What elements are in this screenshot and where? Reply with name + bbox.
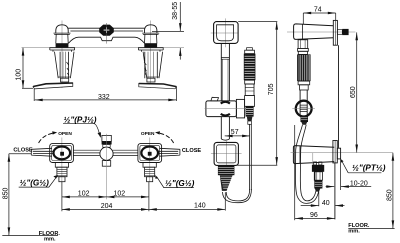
right escutcheon	[138, 48, 163, 52]
OPEN right arc arrow	[160, 133, 174, 143]
FRONT VIEW	[22, 21, 185, 89]
left collar	[61, 78, 69, 82]
tube bands in ring	[300, 105, 307, 111]
handshower holder section	[245, 96, 255, 107]
clamp grip top	[221, 102, 230, 104]
svg-text:½"(PJ½): ½"(PJ½)	[64, 115, 97, 124]
handshower grip ribs	[245, 56, 255, 78]
left legs hatch	[67, 62, 69, 75]
left nut line	[58, 76, 71, 78]
lower flange	[333, 141, 337, 163]
ring centerline	[292, 107, 315, 109]
left shank thread	[57, 167, 67, 177]
right handle hub	[141, 147, 158, 160]
shank tabs	[314, 162, 317, 165]
shank nut dark	[312, 165, 324, 172]
knurl cone ribs	[220, 177, 232, 188]
shank centerline	[312, 153, 314, 172]
svg-text:mm.: mm.	[44, 237, 56, 243]
svg-text:96: 96	[310, 212, 318, 219]
dim 96 left ext	[294, 125, 296, 220]
dim 705 line	[276, 22, 278, 165]
union ext line	[340, 159, 342, 190]
svg-text:850: 850	[386, 189, 393, 201]
dim 74 right ext	[335, 13, 337, 20]
hose vertical (middle)	[250, 124, 252, 190]
dark bands below ring	[301, 116, 309, 122]
upper body	[294, 24, 334, 40]
upper body cap line	[302, 24, 304, 39]
handshower body lines	[245, 88, 253, 91]
dim 74 left ext	[302, 13, 304, 24]
supply nipple stub	[337, 30, 342, 35]
svg-text:332: 332	[98, 94, 110, 101]
hose loop (side)	[295, 150, 318, 203]
left valve ring	[54, 33, 71, 34]
thread labels	[19, 124, 194, 188]
dim 100 bottom ext	[22, 87, 33, 89]
svg-text:½"(G½): ½"(G½)	[165, 179, 195, 188]
right legs hatch	[144, 62, 146, 75]
svg-text:57: 57	[231, 129, 239, 136]
bridge bar bottom edge with centre notch	[68, 37, 144, 43]
dim 57 line	[225, 135, 250, 137]
left valve square	[50, 144, 74, 163]
elbow nut dark	[218, 165, 235, 175]
right shank collar	[143, 163, 156, 168]
right valve ring	[142, 33, 159, 34]
right mounting legs	[143, 52, 163, 78]
rail joint	[221, 57, 229, 59]
wall bracket inner	[217, 25, 234, 41]
upper flange	[333, 20, 337, 45]
right valve square	[138, 144, 162, 163]
left valve base dark band	[56, 43, 69, 47]
elbow centerline v	[225, 139, 227, 168]
neck under body	[298, 40, 308, 49]
bracket centerline v	[224, 18, 226, 47]
svg-text:½"(PT½): ½"(PT½)	[352, 164, 386, 173]
slider clamp body	[206, 101, 237, 117]
wall elbow inner	[217, 145, 236, 163]
handshower cap	[245, 50, 255, 53]
rail upper	[221, 43, 229, 100]
left deck plate	[33, 83, 73, 89]
dim 10-20 right arrow	[341, 186, 349, 188]
left mounting legs	[55, 52, 75, 78]
lower body	[293, 146, 334, 164]
handshower band	[245, 80, 255, 84]
svg-text:204: 204	[101, 203, 113, 210]
dim 40 left segment	[301, 205, 319, 207]
right deck plate	[139, 83, 177, 88]
shower grip dark (side)	[297, 54, 311, 81]
svg-text:CLOSE: CLOSE	[182, 148, 202, 154]
dim 102 102 line	[62, 196, 107, 198]
left escutcheon	[50, 48, 75, 52]
holder ring	[296, 101, 312, 117]
joint lower	[300, 85, 309, 90]
label PT1/2 leader	[342, 161, 382, 173]
diverter centerline	[106, 134, 108, 200]
right valve base dark band	[144, 43, 157, 47]
svg-text:650: 650	[350, 86, 357, 98]
dim 10-20 left arrow	[326, 186, 335, 188]
shank ribs dark	[314, 180, 322, 188]
dim 850 left line	[8, 154, 10, 236]
dim 40 right segment	[335, 205, 344, 207]
diverter bottom	[102, 161, 110, 167]
dim 100 line	[22, 48, 24, 88]
left deck plate top edge	[33, 83, 73, 87]
svg-text:OPEN: OPEN	[141, 131, 155, 137]
dim 705 top ext	[238, 21, 277, 23]
shower grip vertical ribs	[299, 55, 310, 81]
svg-text:102: 102	[114, 191, 126, 198]
diverter body circle	[100, 147, 113, 160]
handshower tip	[248, 121, 252, 124]
floor line left	[2, 235, 58, 237]
diverter dark band	[102, 141, 112, 144]
SIDE VIEW (right)	[287, 20, 393, 219]
handshower stub	[247, 48, 253, 51]
left valve dome cap	[56, 25, 68, 33]
svg-text:74: 74	[314, 6, 322, 13]
diverter centerline (front)	[106, 23, 108, 44]
upper flange inner line	[334, 20, 336, 45]
svg-text:705: 705	[268, 83, 275, 95]
right valve ext to dims	[148, 182, 150, 211]
RAIL VIEW DIMENSIONS	[225, 22, 278, 166]
dim 140 right ext	[224, 192, 226, 210]
svg-text:100: 100	[16, 69, 23, 81]
dim 38-55 bottom arrow segment	[179, 48, 181, 60]
right shank thread	[145, 167, 155, 177]
union nut	[337, 148, 340, 159]
dim 204 line	[62, 208, 149, 210]
svg-text:38-55: 38-55	[172, 2, 179, 20]
hose loop (middle)	[223, 189, 252, 203]
diverter knob cross	[104, 27, 110, 33]
wall line lower	[334, 163, 336, 220]
diverter cap (plan)	[102, 135, 111, 141]
label G1/2 left underline and leader	[19, 177, 57, 188]
lower centerline	[291, 152, 393, 154]
right valve body	[145, 34, 157, 43]
left valve body	[56, 34, 68, 43]
dim 332 line	[35, 99, 176, 101]
clamp cam lever	[211, 97, 219, 101]
svg-text:OPEN: OPEN	[58, 131, 72, 137]
svg-text:½"(G½): ½"(G½)	[20, 179, 50, 188]
bridge lines (plan)	[73, 150, 137, 155]
left shank collar	[55, 163, 68, 168]
handshower ribs lines	[246, 108, 253, 114]
dim 40 ext	[318, 189, 320, 206]
dim 850 left top ext	[9, 153, 31, 155]
bracket centerline h	[211, 32, 239, 34]
diverter stem	[103, 145, 110, 148]
rail end cap	[221, 139, 229, 140]
PLAN DIMENSIONS	[9, 154, 225, 236]
dim 10-20 underline	[349, 186, 372, 188]
left valve centerline (plan)	[61, 138, 63, 183]
left handle hub	[54, 147, 71, 160]
right lever	[158, 148, 180, 156]
dim 96 line	[295, 217, 335, 219]
neck inner lines	[301, 40, 306, 49]
right hub center	[148, 152, 152, 156]
left lever	[31, 148, 54, 156]
clamp centerline	[205, 108, 247, 110]
hose upper (side)	[296, 125, 307, 150]
tube to ring	[300, 90, 307, 116]
left valve centerline	[61, 21, 63, 89]
OPEN left arc arrow	[39, 133, 53, 143]
shank tube	[314, 172, 322, 180]
svg-text:10-20: 10-20	[350, 180, 368, 187]
right valve centerline (plan)	[149, 138, 151, 183]
left hub center	[60, 152, 64, 156]
right shank tip	[147, 177, 153, 182]
dim 38-55 top segment with down arrow	[179, 2, 181, 31]
floor line right	[348, 228, 394, 230]
svg-text:140: 140	[194, 203, 206, 210]
upper body centerline	[287, 31, 355, 33]
rail inner lines	[223, 59, 228, 101]
dim 332 left ext	[33, 89, 35, 101]
handshower grip dark	[244, 54, 256, 81]
left shank tip	[59, 177, 65, 182]
svg-text:102: 102	[78, 191, 90, 198]
left valve ext to dims	[61, 182, 63, 211]
RAIL VIEW (middle)	[205, 18, 256, 202]
right valve square inner	[140, 146, 160, 161]
diverter knob (front)	[99, 25, 114, 36]
wall elbow outer	[214, 142, 238, 165]
handshower cone	[247, 117, 253, 121]
deck level extension line	[22, 47, 185, 49]
right deck plate top edge	[139, 84, 177, 87]
rings	[298, 48, 309, 51]
clamp socket	[236, 99, 244, 118]
bridge bar top lines	[68, 28, 145, 31]
dim 705 bottom ext	[237, 164, 278, 166]
svg-text:850: 850	[2, 188, 9, 200]
right nut line	[146, 76, 159, 78]
shower tip cone (side)	[301, 122, 307, 125]
dim 140 line	[149, 208, 225, 210]
SIDE VIEW DIMENSIONS	[295, 13, 393, 228]
lower body cap line	[299, 146, 301, 163]
svg-text:CLOSE: CLOSE	[13, 147, 33, 153]
wall bracket outer	[214, 22, 239, 44]
dim 74 line	[303, 12, 335, 14]
svg-text:mm.: mm.	[348, 228, 360, 234]
left shank thread lines	[57, 169, 66, 175]
label G1/2 right underline and leader	[157, 177, 194, 188]
rail lower	[221, 117, 229, 139]
open/close annotations	[13, 131, 201, 154]
elbow nut ribs	[218, 168, 234, 174]
right valve dome cap	[145, 25, 157, 33]
dim 850 right line	[392, 153, 394, 229]
joint band	[298, 81, 310, 85]
clamp grip bottom	[221, 114, 230, 116]
dim 650 line	[356, 32, 358, 152]
handshower ribs dark	[246, 106, 254, 116]
FRONT VIEW DIMENSIONS	[22, 2, 184, 101]
dim 332 right ext	[176, 87, 178, 101]
dim 38-55 ext line at bar level	[152, 31, 184, 33]
right valve centerline	[150, 21, 152, 89]
elbow knurl cone	[220, 175, 233, 191]
PLAN VIEW	[31, 134, 180, 200]
label PJ1/2 underline and leader	[63, 124, 100, 137]
elbow centerline h	[211, 153, 242, 155]
right collar	[147, 78, 155, 82]
supply nipple dark	[342, 29, 348, 35]
wall line upper	[338, 45, 340, 148]
connector tip	[315, 189, 321, 192]
right shank thread lines	[145, 169, 155, 175]
left valve square inner	[52, 146, 72, 161]
svg-text:40: 40	[322, 200, 330, 207]
handshower body	[245, 84, 254, 96]
